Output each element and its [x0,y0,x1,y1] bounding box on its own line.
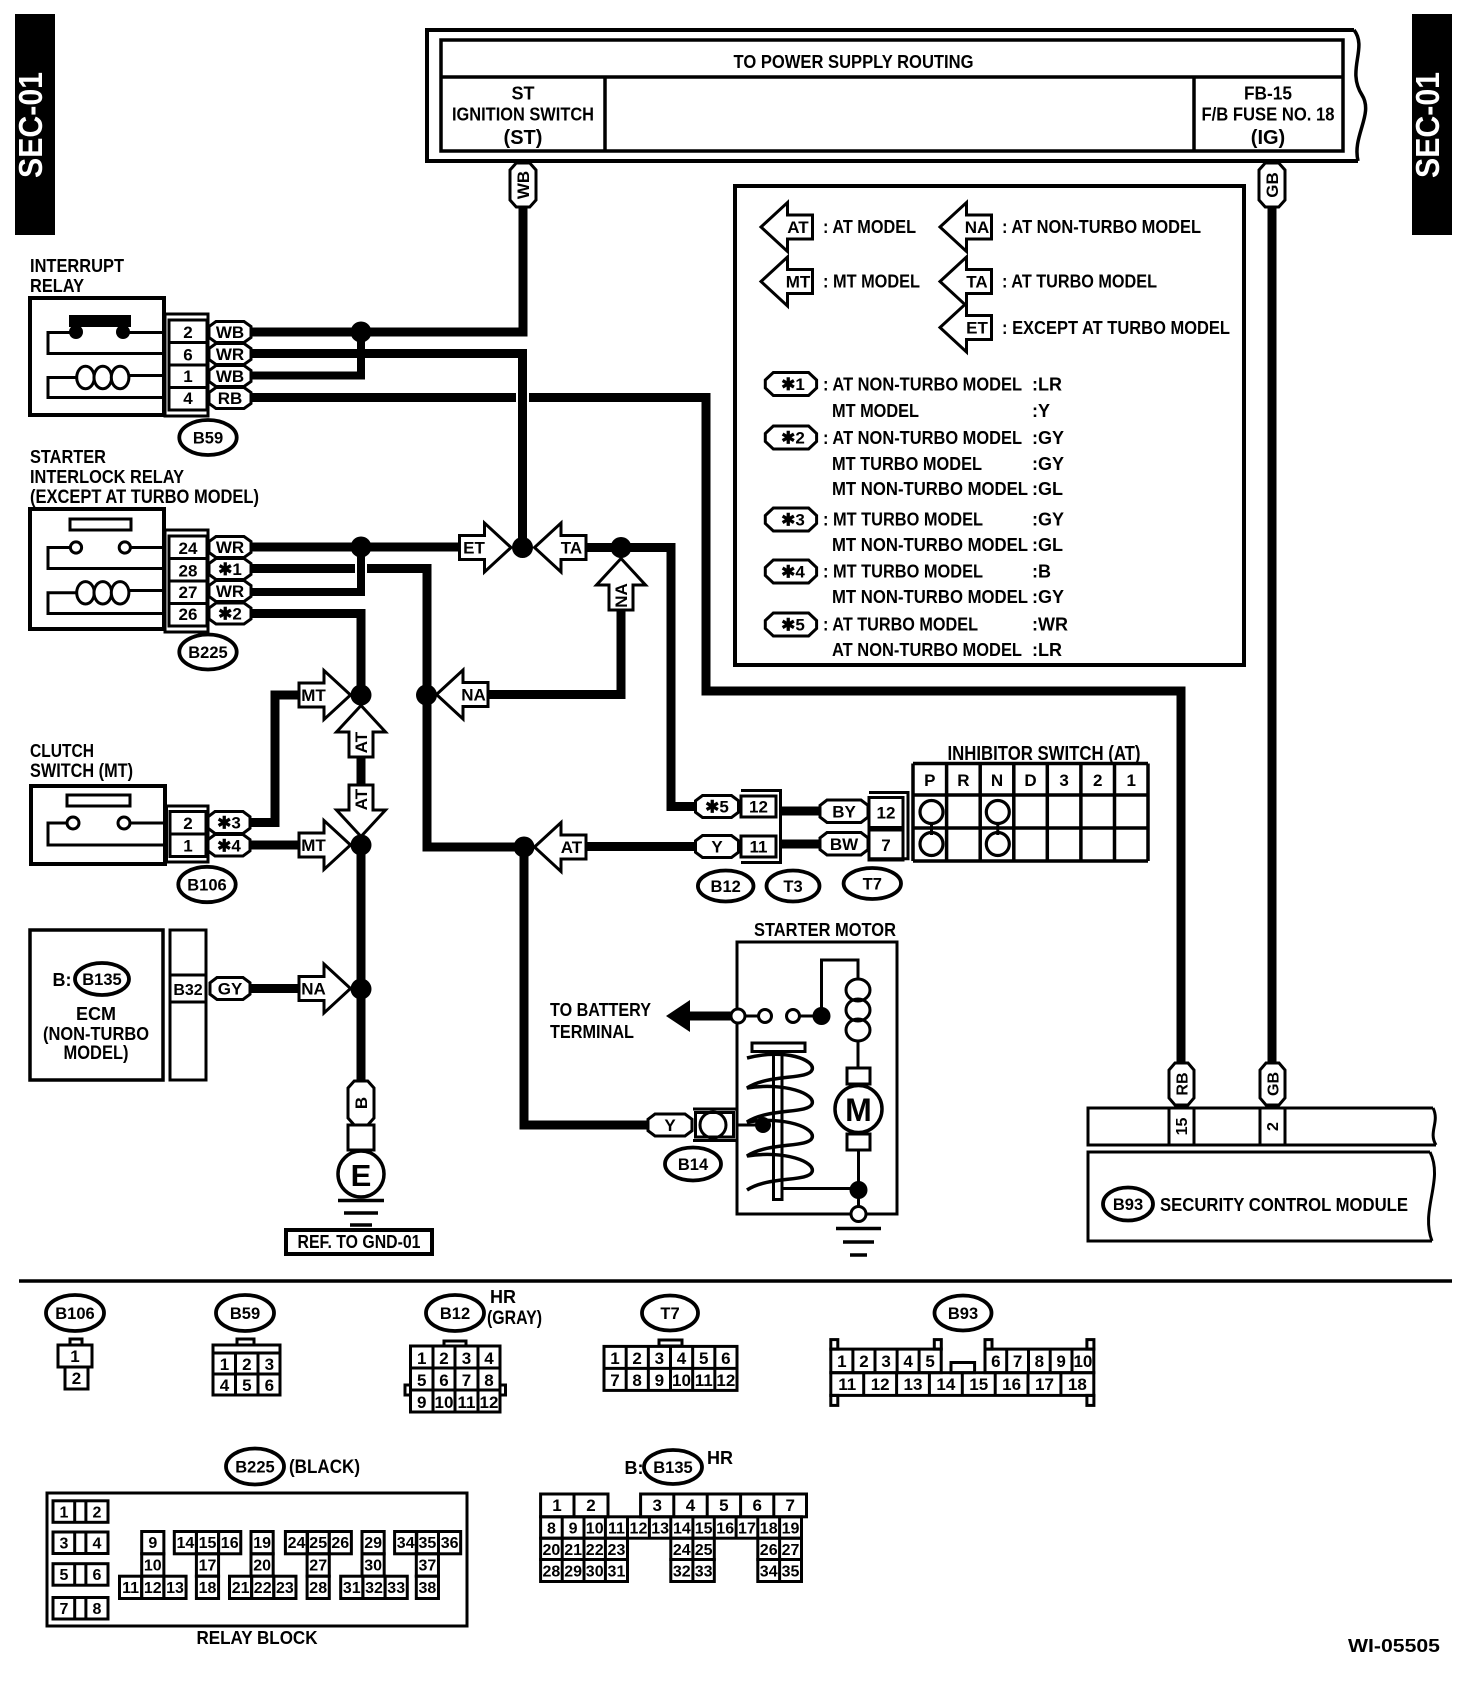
switch S1 CLUTCH SWITCH body [31,786,165,864]
svg-text:(ST): (ST) [504,127,543,149]
svg-text::WR: :WR [1032,615,1068,635]
svg-text:MT: MT [301,686,326,705]
legend badge *5 [765,613,816,636]
section divider line [19,1279,1452,1283]
svg-text:34: 34 [760,1563,778,1580]
solenoid switch contact dot [755,1117,771,1133]
svg-text:13: 13 [166,1580,184,1597]
svg-text:34: 34 [397,1535,415,1552]
connector B59 shell [165,314,208,416]
wire WR from interlock relay pin 24 to ET arrow [251,543,461,552]
svg-text:WI-05505: WI-05505 [1348,1635,1440,1656]
svg-text:7: 7 [881,836,890,855]
svg-text:GB: GB [1263,172,1282,198]
relay block cells row B [142,1554,164,1576]
strip torn right edge [1433,1108,1436,1145]
svg-text:8: 8 [547,1521,556,1538]
svg-text::B: :B [1032,562,1051,582]
svg-text:11: 11 [750,838,768,857]
svg-text:24: 24 [179,539,198,558]
wire RB long run to security control module pin 15 [529,398,1181,1064]
svg-text:28: 28 [309,1580,327,1597]
svg-text:26: 26 [331,1535,349,1552]
svg-text:MT: MT [786,273,811,292]
svg-text::LR: :LR [1032,640,1062,660]
ground symbol E [338,1199,384,1203]
svg-text:T7: T7 [863,876,882,894]
svg-text:4: 4 [484,1349,494,1368]
svg-text:14: 14 [936,1375,955,1394]
svg-text:27: 27 [782,1542,800,1559]
junction dot TA-side [611,537,632,558]
svg-text:24: 24 [288,1535,306,1552]
svg-text:12: 12 [877,804,896,823]
relay block cells row C [120,1576,142,1598]
svg-text:33: 33 [695,1563,713,1580]
connector oval T3 [767,871,820,902]
svg-text:N: N [991,771,1003,790]
svg-text:7: 7 [1013,1352,1022,1371]
solenoid terminal circle B+ [731,1009,745,1023]
svg-text:SECURITY CONTROL MODULE: SECURITY CONTROL MODULE [1160,1195,1408,1215]
svg-text:TA: TA [561,539,582,558]
connector oval B106 [178,867,235,902]
svg-text:: AT TURBO MODEL: : AT TURBO MODEL [1002,272,1157,292]
svg-text:27: 27 [309,1557,327,1574]
wire pin11 to BW pill [781,840,823,849]
svg-text:P: P [924,771,935,790]
svg-text:24: 24 [673,1542,691,1559]
connector oval B93 (pinout) [935,1296,992,1331]
svg-text:2: 2 [859,1352,868,1371]
svg-text:GB: GB [1266,1072,1283,1096]
svg-text:18: 18 [199,1580,217,1597]
pin cell 7 (T7) [869,830,903,860]
svg-text:17: 17 [738,1521,756,1538]
security module pin strip [1088,1108,1436,1145]
svg-text:4: 4 [220,1376,230,1395]
svg-text:2: 2 [72,1369,81,1388]
connector B12 bracket [741,791,781,863]
svg-text:19: 19 [253,1535,271,1552]
svg-text:25: 25 [695,1542,713,1559]
svg-text:2: 2 [1265,1122,1282,1131]
relay K2 contact lead to pin 28 [48,548,166,569]
svg-text:33: 33 [387,1580,405,1597]
relay K2 coil lead to pin 26 [48,593,166,614]
svg-text:28: 28 [179,562,198,581]
svg-text:B106: B106 [187,877,226,895]
svg-text:16: 16 [716,1521,734,1538]
svg-text:AT NON-TURBO MODEL: AT NON-TURBO MODEL [832,640,1022,660]
svg-text:3: 3 [881,1352,890,1371]
svg-text:B:: B: [625,1458,644,1478]
svg-text:23: 23 [608,1542,626,1559]
svg-text:IGNITION SWITCH: IGNITION SWITCH [452,105,594,125]
power box title row divider [441,75,1343,79]
wire ground run from lower junction down to B pill [357,845,366,1081]
connector oval B59 [179,420,236,455]
svg-text:3: 3 [265,1355,274,1374]
svg-text:1: 1 [837,1352,846,1371]
page tab SEC-01 right [1412,14,1452,235]
svg-text:ST: ST [511,84,534,104]
wire WB from ignition switch down and left to interrupt relay pin 2 [251,207,523,332]
connector B93 pinout [831,1340,838,1350]
svg-text:T7: T7 [660,1305,679,1323]
connector oval B93 (module) [1103,1188,1153,1221]
svg-text:26: 26 [179,605,198,624]
relay K2 STARTER INTERLOCK RELAY body [30,509,164,629]
wire color pill Y (B12 pin 11) [696,836,739,858]
svg-text:✱4: ✱4 [217,836,241,855]
svg-text::GY: :GY [1032,587,1064,607]
junction dot pin24 branch [351,537,372,558]
connector oval T7 [844,868,901,899]
svg-text:10: 10 [435,1393,454,1412]
svg-text:1: 1 [183,367,192,386]
relay K1 coil lead to pin 4 [48,378,166,398]
svg-text:12: 12 [630,1521,648,1538]
svg-text:3: 3 [60,1536,69,1553]
svg-text:B32: B32 [173,982,202,999]
svg-text:(BLACK): (BLACK) [289,1457,360,1478]
svg-text::Y: :Y [1032,401,1050,421]
legend arrow AT [761,203,813,252]
relay K2 contact circles [70,542,81,553]
module B93 SECURITY CONTROL MODULE body [1088,1152,1432,1241]
svg-text:RELAY: RELAY [30,276,84,296]
coil to motor lead [857,1041,860,1068]
wire color pill WR pin24 [209,537,251,558]
connector oval B14 [665,1148,721,1181]
svg-text:: AT NON-TURBO MODEL: : AT NON-TURBO MODEL [1002,217,1201,237]
wire Y from B12 pin 11 to AT arrow [586,842,697,851]
svg-text:7: 7 [785,1496,794,1515]
connector B106 shell [167,806,209,862]
svg-text:19: 19 [782,1521,800,1538]
wire color pill B (ground wire) [348,1081,374,1125]
flow arrow AT pointing left at starter junction [535,823,587,872]
power supply routing box torn right edge [1354,30,1366,161]
svg-text::GY: :GY [1032,454,1064,474]
module pin 2 cell [1259,1108,1262,1145]
svg-text::GY: :GY [1032,428,1064,448]
pin cell 11 (B12) [741,836,776,857]
relay K2 armature bar [70,519,131,530]
svg-text:13: 13 [651,1521,669,1538]
svg-text:10: 10 [144,1557,162,1574]
battery feed arrowhead [666,1000,690,1032]
svg-text:CLUTCH: CLUTCH [30,741,94,761]
relay block pin pairs 1-8 [53,1501,108,1523]
wire WB branch to interrupt relay pin 1 [251,332,361,376]
svg-text:(NON-TURBO: (NON-TURBO [43,1024,149,1044]
wire color pill BY (T7 pin 12) [820,800,868,823]
cell divider ST [603,77,607,151]
wire color pill *4 pin1 [208,835,250,857]
svg-text:WR: WR [216,538,244,557]
inhibitor contact circles P/N rows 12 and 7 [930,822,933,835]
svg-text:12: 12 [716,1371,735,1390]
wire pin12 to BY pill [781,807,823,816]
svg-text:6: 6 [721,1349,730,1368]
svg-text:B:: B: [53,970,72,990]
svg-text:WB: WB [216,323,244,342]
svg-text:HR: HR [707,1448,733,1468]
flow arrow AT pointing down at lower junction [337,785,386,837]
svg-text:8: 8 [632,1371,641,1390]
legend badge *1 [765,373,816,396]
svg-text:8: 8 [93,1601,102,1618]
svg-text:17: 17 [1035,1375,1054,1394]
svg-text:4: 4 [903,1352,913,1371]
svg-text:29: 29 [364,1535,382,1552]
motor to ground lead [857,1150,860,1190]
switch S1 bar [67,795,130,806]
relay K1 contact lead to pin 6 [48,333,166,354]
lead from B14 connector to plunger contact [737,1124,757,1127]
svg-text:3: 3 [655,1349,664,1368]
svg-text:4: 4 [686,1496,696,1515]
wire WR from interrupt relay pin 6 down to ET/TA junction [251,354,523,544]
svg-text:FB-15: FB-15 [1244,84,1292,104]
reference box REF. TO GND-01 [286,1230,432,1254]
svg-text:INHIBITOR SWITCH (AT): INHIBITOR SWITCH (AT) [948,743,1141,765]
svg-text:12: 12 [871,1375,890,1394]
svg-text:18: 18 [1068,1375,1087,1394]
svg-text:9: 9 [655,1371,664,1390]
svg-text:5: 5 [925,1352,934,1371]
svg-text:25: 25 [309,1535,327,1552]
wire color pill WR pin27 [209,581,251,602]
svg-text:✱2: ✱2 [781,429,805,448]
flow arrow MT lower [299,821,351,870]
svg-text:STARTER: STARTER [30,447,106,467]
svg-text:2: 2 [93,1504,102,1521]
wire GB from fuse down to security control module pin 2 [1268,207,1277,1063]
svg-text:17: 17 [199,1557,217,1574]
svg-text::GL: :GL [1032,479,1063,499]
svg-text:1: 1 [70,1347,79,1366]
connector oval B12 (pinout) [426,1295,484,1331]
wire color pill WB pin1 [209,366,251,387]
svg-text:R: R [957,771,969,790]
svg-text:MT NON-TURBO MODEL: MT NON-TURBO MODEL [832,535,1028,555]
connector symbol at starter (B14) [693,1108,737,1111]
svg-text:T3: T3 [783,878,802,896]
svg-text:12: 12 [480,1393,499,1412]
page tab SEC-01 left [15,14,55,235]
svg-text:1: 1 [183,837,192,856]
connector T7 bracket [869,793,908,859]
wire color pill Y (B14) [648,1114,692,1136]
svg-text:32: 32 [365,1580,383,1597]
svg-text:35: 35 [782,1563,800,1580]
motor brush upper [847,1068,870,1084]
junction dot AT/starter node [514,837,535,858]
svg-text:TA: TA [966,273,987,292]
flow arrow NA pointing to *1 junction [437,670,489,719]
svg-text:MT NON-TURBO MODEL: MT NON-TURBO MODEL [832,479,1028,499]
svg-text:Y: Y [711,838,723,857]
svg-text:6: 6 [183,346,192,365]
svg-text:B225: B225 [235,1459,274,1477]
svg-text:6: 6 [991,1352,1000,1371]
svg-text:B93: B93 [1113,1196,1143,1214]
svg-text:10: 10 [672,1371,691,1390]
module ECM (NON-TURBO MODEL) body [30,930,163,1080]
svg-text:30: 30 [364,1557,382,1574]
connector B106 pinout [70,1339,82,1345]
module pin 15 cell [1168,1108,1171,1145]
svg-text:TERMINAL: TERMINAL [550,1022,634,1042]
svg-text:ECM: ECM [76,1004,116,1024]
svg-text:E: E [351,1158,372,1193]
legend badge *3 [765,508,816,531]
svg-text:27: 27 [179,583,198,602]
wire color pill *2 pin26 [209,603,251,624]
svg-text:22: 22 [254,1580,272,1597]
svg-text:1: 1 [1127,771,1136,790]
module torn right edge [1429,1152,1435,1241]
svg-text:20: 20 [253,1557,271,1574]
svg-text:B106: B106 [55,1305,94,1323]
wire color pill *1 pin28 [209,559,251,580]
svg-text:M: M [845,1092,872,1128]
connector T7 pinout [659,1340,682,1346]
pin cell 12 (B12) [741,796,776,817]
legend arrow MT [761,257,813,306]
svg-text:2: 2 [586,1496,595,1515]
power supply routing box outer frame [427,30,1358,161]
wire color pill GY [210,978,250,1000]
svg-text:9: 9 [1056,1352,1065,1371]
svg-text:14: 14 [177,1535,195,1552]
svg-text:: AT TURBO MODEL: : AT TURBO MODEL [823,615,978,635]
svg-text:RB: RB [1175,1072,1192,1095]
svg-text:1: 1 [610,1349,619,1368]
svg-text:RELAY BLOCK: RELAY BLOCK [197,1628,318,1648]
svg-text:✱1: ✱1 [218,560,242,579]
svg-text:: MT MODEL: : MT MODEL [823,272,920,292]
svg-text:16: 16 [1002,1375,1021,1394]
flow arrow NA below TA junction [597,559,646,611]
svg-text:STARTER MOTOR: STARTER MOTOR [754,920,896,940]
svg-text:31: 31 [343,1580,361,1597]
svg-text:REF. TO GND-01: REF. TO GND-01 [298,1232,421,1252]
relay K1 contact bar [69,315,131,327]
svg-text:1: 1 [220,1355,229,1374]
flow arrow AT pointing up at MT junction [337,706,386,758]
svg-text:WR: WR [216,582,244,601]
relay K1 contact lead to pin 2 [128,331,166,334]
svg-text:29: 29 [564,1563,582,1580]
svg-text:: AT NON-TURBO MODEL: : AT NON-TURBO MODEL [823,428,1022,448]
wire *2 from interlock relay pin 26 down to MT junction [251,614,361,696]
svg-text:9: 9 [417,1393,426,1412]
connector oval B135 (pinout) [644,1450,702,1484]
wire *4 from clutch switch to lower MT arrow [250,841,301,850]
legend badge *2 [765,426,816,449]
svg-text:2: 2 [1093,771,1102,790]
connector B12 pinout [444,1341,466,1346]
svg-text:30: 30 [586,1563,604,1580]
cell divider FB-15 [1192,77,1196,151]
svg-text:B: B [352,1097,371,1109]
connector pill GB (fuse output) [1259,163,1285,207]
svg-text:B12: B12 [440,1305,470,1323]
svg-text:4: 4 [677,1349,687,1368]
wire GY from ECM to NA arrow [250,984,301,993]
svg-text:: EXCEPT AT TURBO MODEL: : EXCEPT AT TURBO MODEL [1002,318,1230,338]
svg-text:: AT NON-TURBO MODEL: : AT NON-TURBO MODEL [823,375,1022,395]
svg-text:B93: B93 [948,1305,978,1323]
flow arrow MT upper [299,671,351,720]
ground symbol starter motor [836,1227,881,1231]
relay K2 coil [77,582,95,604]
connector B135 pinout [541,1494,608,1517]
relay block outline [47,1493,467,1626]
svg-text:✱5: ✱5 [705,798,729,817]
svg-text:B12: B12 [711,878,741,896]
svg-text:10: 10 [586,1521,604,1538]
relay K1 INTERRUPT RELAY body [30,298,164,415]
wire between AT arrows [357,757,366,787]
connector B106 pin cells [170,812,206,857]
svg-text:RB: RB [218,389,243,408]
svg-text:SWITCH (MT): SWITCH (MT) [30,761,133,782]
svg-text:3: 3 [652,1496,661,1515]
svg-text:Y: Y [664,1116,676,1135]
ground point E [338,1151,384,1197]
connector oval T7 (pinout) [642,1296,698,1331]
svg-text:B59: B59 [230,1305,260,1323]
wire battery feed [688,1012,731,1021]
connector oval B225 (pinout) [226,1449,284,1485]
svg-text:21: 21 [564,1542,582,1559]
wire TA branch right then down to *5 pill [585,548,698,807]
svg-text:10: 10 [1073,1352,1092,1371]
svg-text:28: 28 [543,1563,561,1580]
svg-text:11: 11 [458,1393,476,1412]
svg-text:8: 8 [1035,1352,1044,1371]
svg-text:9: 9 [148,1535,157,1552]
svg-text:MODEL): MODEL) [64,1043,129,1064]
svg-text:9: 9 [569,1521,578,1538]
wire branch dot to interlock relay pin 27 [251,547,361,592]
svg-text:BY: BY [832,802,856,821]
svg-text:: AT MODEL: : AT MODEL [823,217,916,237]
svg-text:✱4: ✱4 [781,563,805,582]
svg-text:(EXCEPT AT TURBO MODEL): (EXCEPT AT TURBO MODEL) [30,487,259,508]
svg-text:15: 15 [199,1535,217,1552]
svg-text:HR: HR [490,1287,516,1307]
svg-text:5: 5 [699,1349,708,1368]
svg-text:37: 37 [419,1557,437,1574]
svg-text:31: 31 [608,1563,626,1580]
connector pill WB (ignition switch output) [510,163,536,207]
svg-text:: MT TURBO MODEL: : MT TURBO MODEL [823,510,983,530]
svg-text:WR: WR [216,345,244,364]
relay K2 coil lead to pin 27 [129,589,167,592]
svg-text:4: 4 [183,389,193,408]
svg-text:SEC-01: SEC-01 [1409,72,1446,178]
plunger link to motor ground node [782,1187,850,1190]
pin cell 12 (T7) [869,798,903,828]
svg-text:12: 12 [144,1580,162,1597]
svg-text:GY: GY [218,980,243,999]
